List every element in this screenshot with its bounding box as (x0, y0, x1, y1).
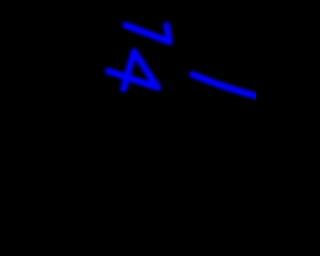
stroke: triangle legs (letter-A / delta shape) (124, 52, 158, 90)
stroke: long diagonal line (right) (193, 75, 259, 97)
canvas: black drawing surface with blue freehand strokes (0, 0, 256, 256)
stroke: triangle bottom bar / crossbar (108, 71, 158, 87)
stroke: check-mark shape (top) (126, 25, 170, 42)
